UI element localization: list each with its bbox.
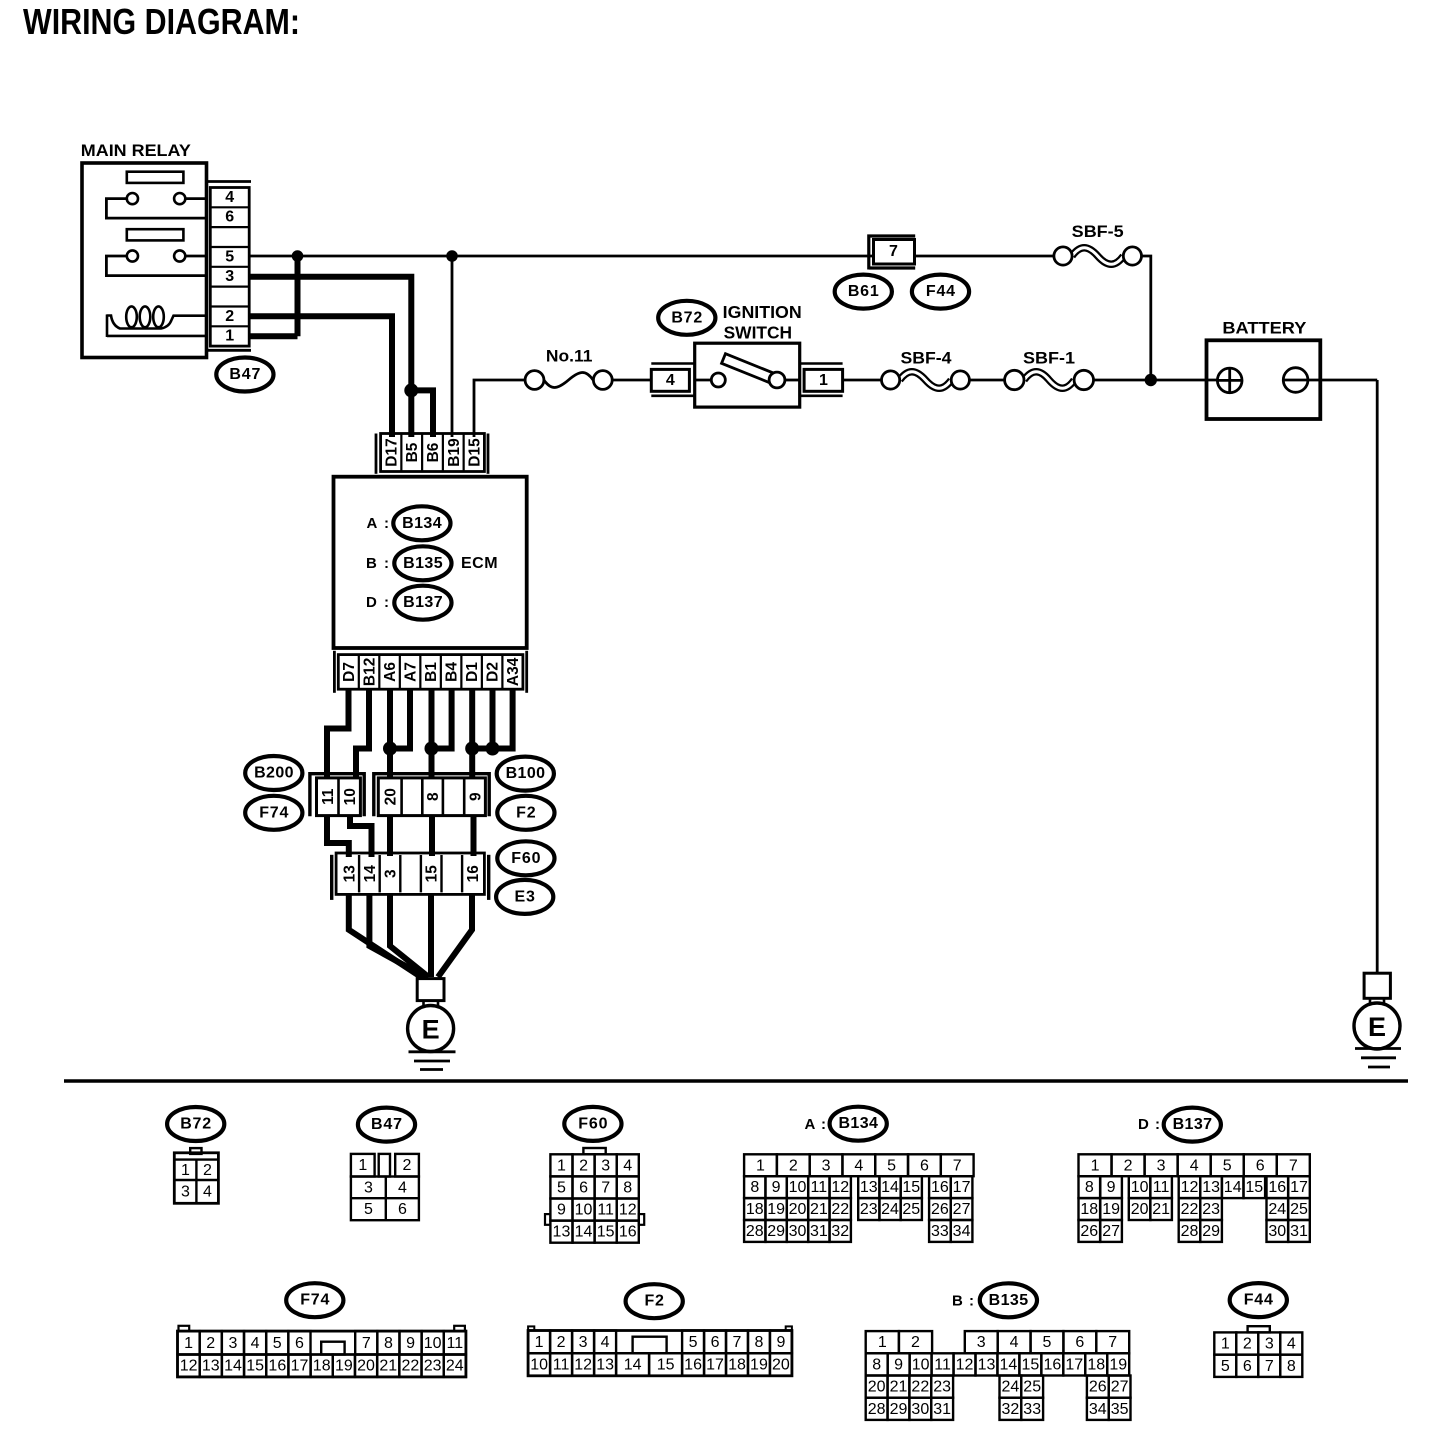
ground E terminal box right — [1364, 973, 1390, 998]
wire F2.8 to F60.15 (thick) — [429, 816, 435, 856]
svg-text:SBF-4: SBF-4 — [901, 348, 953, 367]
svg-text:29: 29 — [1202, 1223, 1220, 1240]
junction dot A6/A7 — [383, 742, 397, 756]
svg-text:14: 14 — [575, 1224, 593, 1241]
svg-text:18: 18 — [728, 1357, 746, 1374]
svg-text:8: 8 — [1287, 1358, 1296, 1375]
svg-text:19: 19 — [767, 1201, 785, 1218]
svg-text:B137: B137 — [403, 594, 443, 611]
svg-text:3: 3 — [822, 1157, 831, 1174]
svg-text:25: 25 — [1290, 1201, 1308, 1218]
svg-text:B200: B200 — [254, 765, 294, 782]
svg-text:14: 14 — [362, 865, 379, 883]
separator line — [64, 1079, 1408, 1083]
svg-text:B134: B134 — [838, 1115, 878, 1132]
svg-text:2: 2 — [911, 1334, 920, 1351]
svg-text:B47: B47 — [371, 1116, 403, 1133]
svg-text:B72: B72 — [671, 309, 703, 326]
svg-text:24: 24 — [881, 1201, 899, 1218]
svg-text:25: 25 — [902, 1201, 920, 1218]
svg-text:30: 30 — [1268, 1223, 1286, 1240]
svg-text:29: 29 — [890, 1401, 908, 1418]
svg-text:18: 18 — [746, 1201, 764, 1218]
svg-text:29: 29 — [767, 1223, 785, 1240]
junction dot pin5/B19 — [446, 250, 458, 262]
svg-text:15: 15 — [902, 1179, 920, 1196]
svg-text:23: 23 — [1202, 1201, 1220, 1218]
svg-text:22: 22 — [1181, 1201, 1199, 1218]
svg-text:10: 10 — [424, 1335, 442, 1352]
svg-text:No.11: No.11 — [546, 347, 593, 366]
ground E neck left — [424, 1001, 439, 1008]
fuse SBF-4 — [882, 371, 970, 389]
wire F60.13 to ground E (thick) — [349, 894, 421, 977]
svg-text:5: 5 — [689, 1334, 698, 1351]
svg-text:17: 17 — [953, 1179, 971, 1196]
svg-text:20: 20 — [1131, 1201, 1149, 1218]
svg-text:27: 27 — [953, 1201, 971, 1218]
junction dot pin5/pin1 — [292, 250, 304, 262]
svg-text:F2: F2 — [644, 1293, 664, 1310]
svg-text:6: 6 — [225, 209, 234, 226]
svg-text:1: 1 — [557, 1157, 566, 1174]
svg-text:IGNITION: IGNITION — [723, 302, 802, 322]
svg-text:35: 35 — [1111, 1401, 1129, 1418]
svg-text:5: 5 — [1223, 1157, 1232, 1174]
svg-text:3: 3 — [181, 1184, 190, 1201]
svg-text:F74: F74 — [300, 1292, 330, 1309]
fusebox 7 bracket — [869, 236, 915, 270]
battery box — [1207, 340, 1321, 419]
svg-text:E3: E3 — [515, 888, 536, 905]
junction dot battery node — [1145, 374, 1157, 386]
svg-text:23: 23 — [424, 1358, 442, 1375]
svg-text:10: 10 — [530, 1357, 548, 1374]
svg-text:6: 6 — [711, 1334, 720, 1351]
svg-text:8: 8 — [750, 1179, 759, 1196]
connector F60 cells 13 14 3 15 16 — [336, 853, 484, 894]
svg-text:WIRING DIAGRAM:: WIRING DIAGRAM: — [23, 1, 300, 42]
svg-text:15: 15 — [246, 1358, 264, 1375]
svg-text:7: 7 — [362, 1335, 371, 1352]
ignition switch label — [723, 302, 802, 343]
svg-text:9: 9 — [1107, 1179, 1116, 1196]
svg-text:SBF-1: SBF-1 — [1023, 348, 1075, 367]
svg-text:1: 1 — [756, 1157, 765, 1174]
ECM connector oval A:B134 — [367, 506, 451, 540]
fuse SBF-5 — [1054, 247, 1142, 265]
svg-text:11: 11 — [1153, 1179, 1170, 1196]
connector oval B72 — [658, 301, 715, 335]
svg-text:6: 6 — [295, 1335, 304, 1352]
connector B200 cells 11 10 — [317, 778, 361, 816]
svg-text:7: 7 — [1265, 1358, 1274, 1375]
svg-text:22: 22 — [831, 1201, 849, 1218]
svg-text:F60: F60 — [578, 1115, 608, 1132]
svg-text:3: 3 — [977, 1334, 986, 1351]
svg-text:11: 11 — [597, 1202, 614, 1219]
connector F2-upper cells 20 8 9 — [378, 778, 485, 816]
relay contact 1 wires to pins 4 and 6 — [106, 199, 206, 219]
svg-text:12: 12 — [831, 1179, 849, 1196]
svg-text:9: 9 — [406, 1335, 415, 1352]
fuse SBF-1 — [1005, 370, 1094, 389]
svg-text:13: 13 — [553, 1224, 571, 1241]
svg-text:16: 16 — [465, 865, 482, 883]
svg-text:9: 9 — [557, 1202, 566, 1219]
svg-text:3: 3 — [228, 1335, 237, 1352]
svg-text:6: 6 — [1075, 1334, 1084, 1351]
svg-text:B19: B19 — [446, 438, 463, 467]
ECM bottom connector bracket — [334, 651, 526, 693]
wire D7 to B200 pin 11 (thick) — [327, 689, 349, 779]
connector oval B61 — [835, 275, 892, 309]
svg-text:4: 4 — [854, 1157, 863, 1174]
svg-text:B :: B : — [952, 1292, 975, 1309]
svg-text:6: 6 — [579, 1179, 588, 1196]
svg-text:B4: B4 — [444, 662, 461, 682]
svg-text:D :: D : — [366, 594, 391, 611]
svg-text:2: 2 — [225, 308, 234, 325]
svg-text:17: 17 — [1065, 1356, 1083, 1373]
svg-text:5: 5 — [1043, 1334, 1052, 1351]
svg-text:BATTERY: BATTERY — [1222, 318, 1307, 337]
svg-text:E: E — [422, 1015, 440, 1045]
svg-text:19: 19 — [1102, 1201, 1120, 1218]
svg-text:B72: B72 — [180, 1116, 212, 1133]
svg-text:1: 1 — [535, 1334, 544, 1351]
svg-text:2: 2 — [1124, 1157, 1133, 1174]
junction dot D1 — [465, 742, 479, 756]
svg-text:3: 3 — [383, 869, 400, 878]
svg-text:F44: F44 — [1244, 1292, 1274, 1309]
wire fusebox7 to SBF-5 — [915, 255, 1054, 258]
svg-text:10: 10 — [342, 788, 359, 805]
svg-text:B100: B100 — [506, 765, 546, 782]
svg-text:SWITCH: SWITCH — [724, 323, 793, 343]
pinout oval B72 — [167, 1107, 224, 1141]
svg-text:26: 26 — [1089, 1379, 1107, 1396]
svg-text:B135: B135 — [403, 555, 443, 572]
svg-text:15: 15 — [424, 865, 441, 883]
pinout F2 connector — [528, 1326, 792, 1375]
svg-text:B134: B134 — [402, 515, 442, 532]
ground E circle right — [1354, 1003, 1400, 1049]
svg-text:9: 9 — [894, 1356, 903, 1373]
relay contact bar 1 — [127, 172, 184, 183]
svg-text:5: 5 — [887, 1157, 896, 1174]
wire ignition switch to SBF-4 — [843, 379, 882, 382]
ECM connector oval B:B135 — [366, 546, 452, 580]
svg-text:11: 11 — [553, 1357, 570, 1374]
svg-text:8: 8 — [872, 1356, 881, 1373]
wire A7 joins A6 (thick) — [390, 689, 410, 748]
svg-text:34: 34 — [1089, 1401, 1107, 1418]
svg-text:5: 5 — [273, 1335, 282, 1352]
svg-text:4: 4 — [1190, 1157, 1199, 1174]
ignition switch box — [695, 343, 800, 407]
svg-text:6: 6 — [398, 1201, 407, 1218]
svg-text:3: 3 — [601, 1157, 610, 1174]
ignition switch internals — [695, 354, 800, 388]
svg-text:3: 3 — [579, 1334, 588, 1351]
svg-text:33: 33 — [931, 1223, 949, 1240]
svg-text:B61: B61 — [848, 283, 880, 300]
svg-text:15: 15 — [657, 1357, 675, 1374]
connector oval F2 right — [497, 796, 554, 830]
svg-text:F44: F44 — [926, 283, 956, 300]
ground E circle left — [408, 1006, 454, 1052]
svg-text:2: 2 — [1243, 1336, 1252, 1353]
wire F2.20 to F60.3 (thick) — [387, 816, 393, 856]
svg-text:14: 14 — [1000, 1356, 1018, 1373]
ground hatching right — [1355, 1049, 1401, 1068]
pinout oval B47 — [358, 1108, 415, 1142]
svg-text:7: 7 — [1108, 1334, 1117, 1351]
svg-text:D17: D17 — [383, 438, 400, 466]
svg-text:27: 27 — [1102, 1223, 1120, 1240]
svg-text:20: 20 — [357, 1358, 375, 1375]
wire B200.11 to F60.13 (thick) — [327, 816, 349, 857]
svg-text:7: 7 — [601, 1179, 610, 1196]
svg-text:11: 11 — [447, 1335, 464, 1352]
connector B47 pin strip cells — [210, 188, 249, 347]
connector oval B200 — [245, 756, 302, 790]
svg-text:9: 9 — [772, 1179, 781, 1196]
wire D1 to F2 pin 9 (thick) — [469, 689, 475, 779]
svg-text:E: E — [1368, 1012, 1386, 1042]
ECM top connector cells D17 B5 B6 B19 D15 — [381, 434, 485, 472]
svg-text:17: 17 — [1290, 1179, 1308, 1196]
svg-text:31: 31 — [933, 1401, 951, 1418]
svg-text:10: 10 — [912, 1356, 930, 1373]
connector oval F60 main — [497, 841, 554, 875]
svg-text:14: 14 — [881, 1179, 899, 1196]
pinout F44 connector — [1214, 1326, 1302, 1377]
svg-text:10: 10 — [1131, 1179, 1149, 1196]
fuse No.11 — [525, 371, 612, 390]
svg-text:4: 4 — [623, 1157, 632, 1174]
svg-text:A :: A : — [367, 515, 391, 532]
svg-text:30: 30 — [789, 1223, 807, 1240]
wire SBF-1 to battery — [1094, 379, 1218, 382]
svg-text:16: 16 — [1043, 1356, 1061, 1373]
svg-text:16: 16 — [619, 1224, 637, 1241]
svg-text:1: 1 — [184, 1335, 193, 1352]
svg-text:1: 1 — [878, 1334, 887, 1351]
relay contact 2 wires to pins 3 and 5 — [106, 256, 206, 276]
relay contact bar 2 — [127, 229, 184, 240]
svg-text:3: 3 — [364, 1179, 373, 1196]
svg-text:5: 5 — [225, 248, 234, 265]
svg-text:24: 24 — [1002, 1379, 1020, 1396]
svg-text:MAIN RELAY: MAIN RELAY — [81, 141, 192, 160]
svg-text:18: 18 — [1087, 1356, 1105, 1373]
svg-text:6: 6 — [1243, 1358, 1252, 1375]
svg-text:32: 32 — [831, 1223, 849, 1240]
svg-text:23: 23 — [860, 1201, 878, 1218]
main relay box — [82, 163, 207, 358]
ground E terminal box left — [417, 979, 444, 1001]
svg-text:4: 4 — [666, 372, 675, 389]
connector oval F74 left — [245, 796, 302, 830]
junction dot B1/B4 — [425, 742, 439, 756]
wire battery minus to right ground — [1308, 380, 1377, 973]
wire F60.3 to ground E (thick) — [390, 894, 429, 977]
connector oval E3 — [496, 880, 553, 914]
svg-text:D7: D7 — [341, 662, 358, 682]
svg-text:19: 19 — [1109, 1356, 1127, 1373]
svg-text:22: 22 — [402, 1358, 420, 1375]
svg-text:24: 24 — [446, 1358, 464, 1375]
pinout F60 connector — [545, 1148, 644, 1243]
svg-text:26: 26 — [1080, 1223, 1098, 1240]
ECM connector oval D:B137 — [366, 586, 452, 620]
connector F2-upper bracket — [374, 774, 489, 817]
svg-text:D1: D1 — [464, 662, 481, 682]
svg-text:34: 34 — [953, 1223, 971, 1240]
connector B200 bracket — [310, 774, 364, 817]
svg-text:12: 12 — [574, 1357, 592, 1374]
svg-text:A34: A34 — [505, 657, 522, 686]
junction dot D2 — [486, 742, 500, 756]
pinout F74 connector — [178, 1326, 466, 1377]
svg-text:B47: B47 — [229, 366, 261, 383]
pinout B135 connector grid — [866, 1331, 1131, 1420]
svg-text:3: 3 — [1157, 1157, 1166, 1174]
svg-text:17: 17 — [291, 1358, 309, 1375]
svg-text:24: 24 — [1268, 1201, 1286, 1218]
battery minus terminal — [1283, 368, 1308, 393]
svg-text:20: 20 — [772, 1357, 790, 1374]
wire F2.9 to F60.16 (thick) — [471, 816, 477, 856]
svg-text:1: 1 — [819, 372, 828, 389]
pinout B47 connector — [351, 1154, 419, 1220]
svg-text:33: 33 — [1023, 1401, 1041, 1418]
fusebox 7 box — [874, 240, 915, 265]
ECM top connector bracket — [376, 434, 488, 474]
svg-text:13: 13 — [202, 1358, 220, 1375]
svg-text:12: 12 — [1181, 1179, 1199, 1196]
svg-text:1: 1 — [358, 1157, 367, 1174]
svg-text:12: 12 — [619, 1202, 637, 1219]
svg-text:1: 1 — [181, 1162, 190, 1179]
svg-text:31: 31 — [1290, 1223, 1308, 1240]
svg-text:21: 21 — [379, 1358, 397, 1375]
svg-text:7: 7 — [733, 1334, 742, 1351]
svg-text:2: 2 — [579, 1157, 588, 1174]
connector oval B47 — [216, 358, 273, 392]
svg-text:27: 27 — [1111, 1379, 1129, 1396]
svg-text:2: 2 — [203, 1162, 212, 1179]
svg-text:4: 4 — [251, 1335, 260, 1352]
wire pin3 to ECM B5/B6 (thick) — [249, 277, 433, 437]
svg-text:25: 25 — [1023, 1379, 1041, 1396]
pinout oval D:B137 — [1138, 1108, 1221, 1142]
svg-text:1: 1 — [1091, 1157, 1100, 1174]
svg-text:B135: B135 — [989, 1292, 1029, 1309]
svg-text:16: 16 — [1268, 1179, 1286, 1196]
ECM bottom connector cells D7 B12 A6 A7 B1 B4 D1 D2 A34 — [338, 655, 523, 690]
svg-text:D2: D2 — [485, 662, 502, 682]
svg-text:1: 1 — [1221, 1336, 1230, 1353]
svg-text:7: 7 — [889, 243, 898, 260]
svg-text:32: 32 — [1002, 1401, 1020, 1418]
svg-text:2: 2 — [206, 1335, 215, 1352]
svg-text:5: 5 — [1221, 1358, 1230, 1375]
svg-text:23: 23 — [933, 1379, 951, 1396]
relay contact 1 circles — [127, 193, 185, 204]
svg-text:8: 8 — [1085, 1179, 1094, 1196]
svg-text:2: 2 — [789, 1157, 798, 1174]
svg-text:13: 13 — [860, 1179, 878, 1196]
svg-text:20: 20 — [868, 1379, 886, 1396]
connector B47 pin strip bracket — [207, 182, 252, 351]
svg-text:D15: D15 — [467, 438, 484, 467]
svg-text:14: 14 — [624, 1357, 642, 1374]
ground E neck right — [1370, 998, 1384, 1005]
wire B4 joins B1 (thick) — [432, 689, 452, 748]
svg-text:15: 15 — [1245, 1179, 1263, 1196]
svg-text:10: 10 — [789, 1179, 807, 1196]
svg-text:7: 7 — [1289, 1157, 1298, 1174]
svg-text:2: 2 — [557, 1334, 566, 1351]
svg-text:21: 21 — [1152, 1201, 1170, 1218]
svg-text:16: 16 — [931, 1179, 949, 1196]
svg-text:A7: A7 — [403, 662, 420, 682]
svg-text:8: 8 — [384, 1335, 393, 1352]
wire A6 to F2 pin 20 (thick) — [387, 689, 393, 779]
svg-text:9: 9 — [776, 1334, 785, 1351]
svg-text:1: 1 — [225, 328, 234, 345]
relay coil — [107, 306, 207, 337]
wire A34 joins D2 (thick) — [493, 689, 513, 748]
svg-text:B5: B5 — [404, 442, 421, 462]
svg-text:3: 3 — [1265, 1336, 1274, 1353]
wire B200.10 to F60.14 (thick) — [350, 816, 372, 857]
ground hatching left — [409, 1052, 456, 1070]
svg-text:11: 11 — [320, 788, 337, 805]
pinout B137 connector grid — [1079, 1154, 1310, 1242]
pinout oval B:B135 — [952, 1283, 1037, 1317]
svg-text:30: 30 — [911, 1401, 929, 1418]
battery plus terminal — [1217, 368, 1242, 393]
svg-text:18: 18 — [1080, 1201, 1098, 1218]
svg-text:8: 8 — [755, 1334, 764, 1351]
svg-text:28: 28 — [868, 1401, 886, 1418]
svg-text:20: 20 — [789, 1201, 807, 1218]
svg-text:26: 26 — [931, 1201, 949, 1218]
ECM box — [334, 477, 527, 648]
svg-text:6: 6 — [1256, 1157, 1265, 1174]
svg-text:8: 8 — [425, 792, 442, 801]
wire F60.16 to ground E (thick) — [438, 894, 472, 977]
svg-text:18: 18 — [313, 1358, 331, 1375]
wire D15 riser to ignition circuit (thin) — [474, 380, 525, 437]
pinout oval F74 — [286, 1283, 343, 1317]
svg-text:13: 13 — [1202, 1179, 1220, 1196]
ignition switch pin 4 box — [651, 364, 694, 396]
svg-text:16: 16 — [684, 1357, 702, 1374]
svg-text:3: 3 — [225, 268, 234, 285]
pinout B72 connector — [174, 1148, 218, 1203]
connector oval F44 top — [912, 275, 969, 309]
svg-text:4: 4 — [601, 1334, 610, 1351]
svg-text:19: 19 — [335, 1358, 353, 1375]
svg-text:B137: B137 — [1173, 1116, 1213, 1133]
svg-text:9: 9 — [467, 792, 484, 801]
svg-text:F60: F60 — [511, 850, 541, 867]
